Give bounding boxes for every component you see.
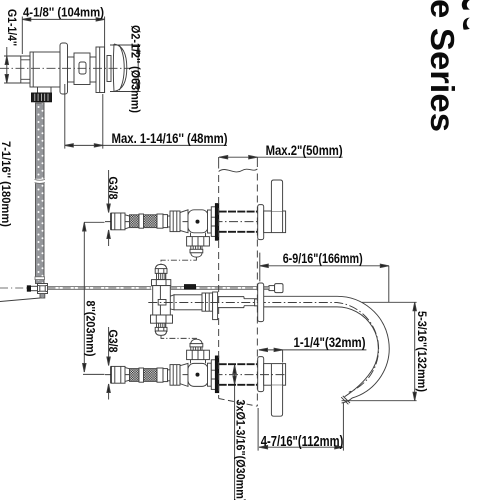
middle valve bottom union nut (151, 315, 173, 323)
upper handle body (264, 211, 286, 233)
pop-up lift rod (48, 285, 270, 290)
middle valve body (153, 286, 171, 315)
lower hose taper (125, 367, 130, 381)
dimension 8in (203mm) (83, 222, 105, 374)
wall left face (218, 157, 220, 169)
middle valve top hex (155, 269, 167, 274)
connection centerline middle valve to lower valve (161, 336, 196, 340)
upper valve barrel body (188, 210, 208, 233)
spout outlet taper (170, 295, 174, 310)
upper valve cone (180, 210, 188, 233)
upper hose taper (125, 215, 130, 229)
upper hose braid (130, 214, 173, 228)
middle valve bottom threads (157, 323, 166, 328)
label leader G3/8 lower (107, 327, 110, 400)
lower supply centerline (105, 374, 286, 376)
dimension Max.2in (50mm) (219, 156, 343, 159)
curved spout tube (264, 296, 389, 404)
svg-text:4-7/16"(112mm): 4-7/16"(112mm) (261, 434, 344, 450)
cross fitting left stub (27, 286, 37, 291)
wall bottom break dashed (219, 399, 258, 407)
svg-text:3xØ1-3/16"(Ø30mm): 3xØ1-3/16"(Ø30mm) (234, 400, 246, 500)
detail view: mounting flange disc (96, 47, 105, 93)
upper supply pipe through wall (219, 212, 258, 232)
svg-text:G3/8: G3/8 (106, 330, 120, 353)
lower wall coupling nuts (208, 360, 216, 390)
lower dark mounting flange (215, 356, 218, 393)
middle valve bottom cap (155, 331, 166, 335)
dimension 4-7/16in (112mm) (258, 403, 343, 451)
upper valve inlet nut (170, 211, 180, 232)
dimension Max.1-14/16in (48mm) (65, 84, 227, 149)
detail view: cartridge block (74, 53, 90, 85)
spout coupler pipe (174, 295, 202, 310)
lower valve barrel body (188, 363, 208, 386)
middle valve top threads (157, 273, 166, 279)
lower handle body (264, 364, 286, 386)
detail view: handle dome (113, 44, 127, 92)
upper wall coupling nuts (208, 207, 216, 237)
svg-text:G1-1/4'': G1-1/4'' (5, 9, 17, 46)
lower handle lever stem (271, 385, 282, 416)
detail view: wall escutcheon disc (60, 43, 68, 94)
svg-text:6-9/16"(166mm): 6-9/16"(166mm) (283, 250, 363, 266)
upper valve branch down: neck, nut, threads, hex, cap (187, 233, 210, 257)
lower handle escutcheon (258, 357, 264, 392)
lower hose nut G3/8 (111, 366, 125, 383)
spout escutcheon (258, 283, 264, 322)
spout pipe through wall (218, 297, 258, 308)
wall break squiggle (219, 169, 258, 172)
wall right face (256, 157, 258, 167)
detail view: neck2 (107, 56, 111, 82)
svg-text:Max.2"(50mm): Max.2"(50mm) (266, 142, 343, 158)
upper handle escutcheon (258, 205, 264, 240)
detail view: dark hose nut (32, 93, 52, 102)
braided riser hose vertical (35, 103, 45, 284)
dimension 4-1/8in (104mm) (22, 17, 104, 94)
dimension 5-3/16in (132mm) (342, 302, 417, 400)
svg-text:e Series: e Series (424, 0, 461, 132)
spout centerline (148, 303, 378, 393)
main horizontal centerline lift rod axis (0, 287, 268, 289)
dimension 6-9/16in (166mm) (260, 253, 389, 303)
connection centerline upper valve to middle valve (161, 257, 196, 264)
svg-text:8''(203mm): 8''(203mm) (84, 301, 98, 357)
detail view: bottom tee stub (36, 87, 52, 93)
middle valve top union nut (152, 280, 171, 286)
detail view: neck (68, 57, 75, 82)
lower valve cone (180, 363, 188, 386)
svg-text:Ø2-1/2'' (Ø63mm): Ø2-1/2'' (Ø63mm) (129, 25, 143, 113)
svg-text:G3/8: G3/8 (106, 177, 120, 200)
lower supply pipe through wall (219, 364, 258, 385)
dimension 1-1/4in (32mm) (259, 348, 367, 362)
hose end cross fitting (38, 284, 48, 294)
upper supply centerline (105, 221, 286, 223)
upper handle lever stem (271, 180, 282, 211)
lower hose braid (130, 368, 173, 382)
centerline detail view (0, 67, 131, 69)
small stop ring at wall face (255, 299, 259, 306)
spout hex nut at wall (202, 293, 213, 311)
title fragment glyph 2 (463, 18, 470, 30)
label leader G3/8 upper (107, 170, 110, 246)
diagonal lead line to left edge (0, 298, 40, 302)
middle valve bottom hex (155, 327, 167, 331)
title fragment glyph 1 (462, 0, 470, 10)
spout mounting flange (213, 292, 218, 320)
pop-up knob on spout (269, 284, 283, 293)
dimension dia 2-1/2in (63mm) (110, 45, 141, 92)
lower valve inlet nut (170, 365, 180, 386)
upper dark mounting flange (215, 204, 218, 241)
dimension G1-1/4 leader (4, 47, 21, 83)
svg-text:5-3/16"(132mm): 5-3/16"(132mm) (415, 311, 429, 392)
svg-text:1-1/4"(32mm): 1-1/4"(32mm) (294, 335, 366, 350)
detail view: valve body cylinder (30, 52, 60, 87)
leader 3x dia 1-3/16in holes (233, 365, 236, 500)
svg-text:4-1/8'' (104mm): 4-1/8'' (104mm) (23, 4, 104, 19)
detail view: inlet pipe G1-1/4 (21, 56, 30, 83)
svg-text:Max. 1-14/16'' (48mm): Max. 1-14/16'' (48mm) (112, 131, 228, 146)
lower valve branch up: neck, nut, threads, hex, cap (187, 339, 210, 363)
cross fitting bottom stub (40, 294, 45, 299)
detail view: step ring (90, 57, 96, 82)
middle valve top cap (155, 264, 166, 269)
upper hose nut G3/8 (111, 213, 125, 230)
svg-text:7-1/16'' (180mm): 7-1/16'' (180mm) (0, 141, 13, 227)
